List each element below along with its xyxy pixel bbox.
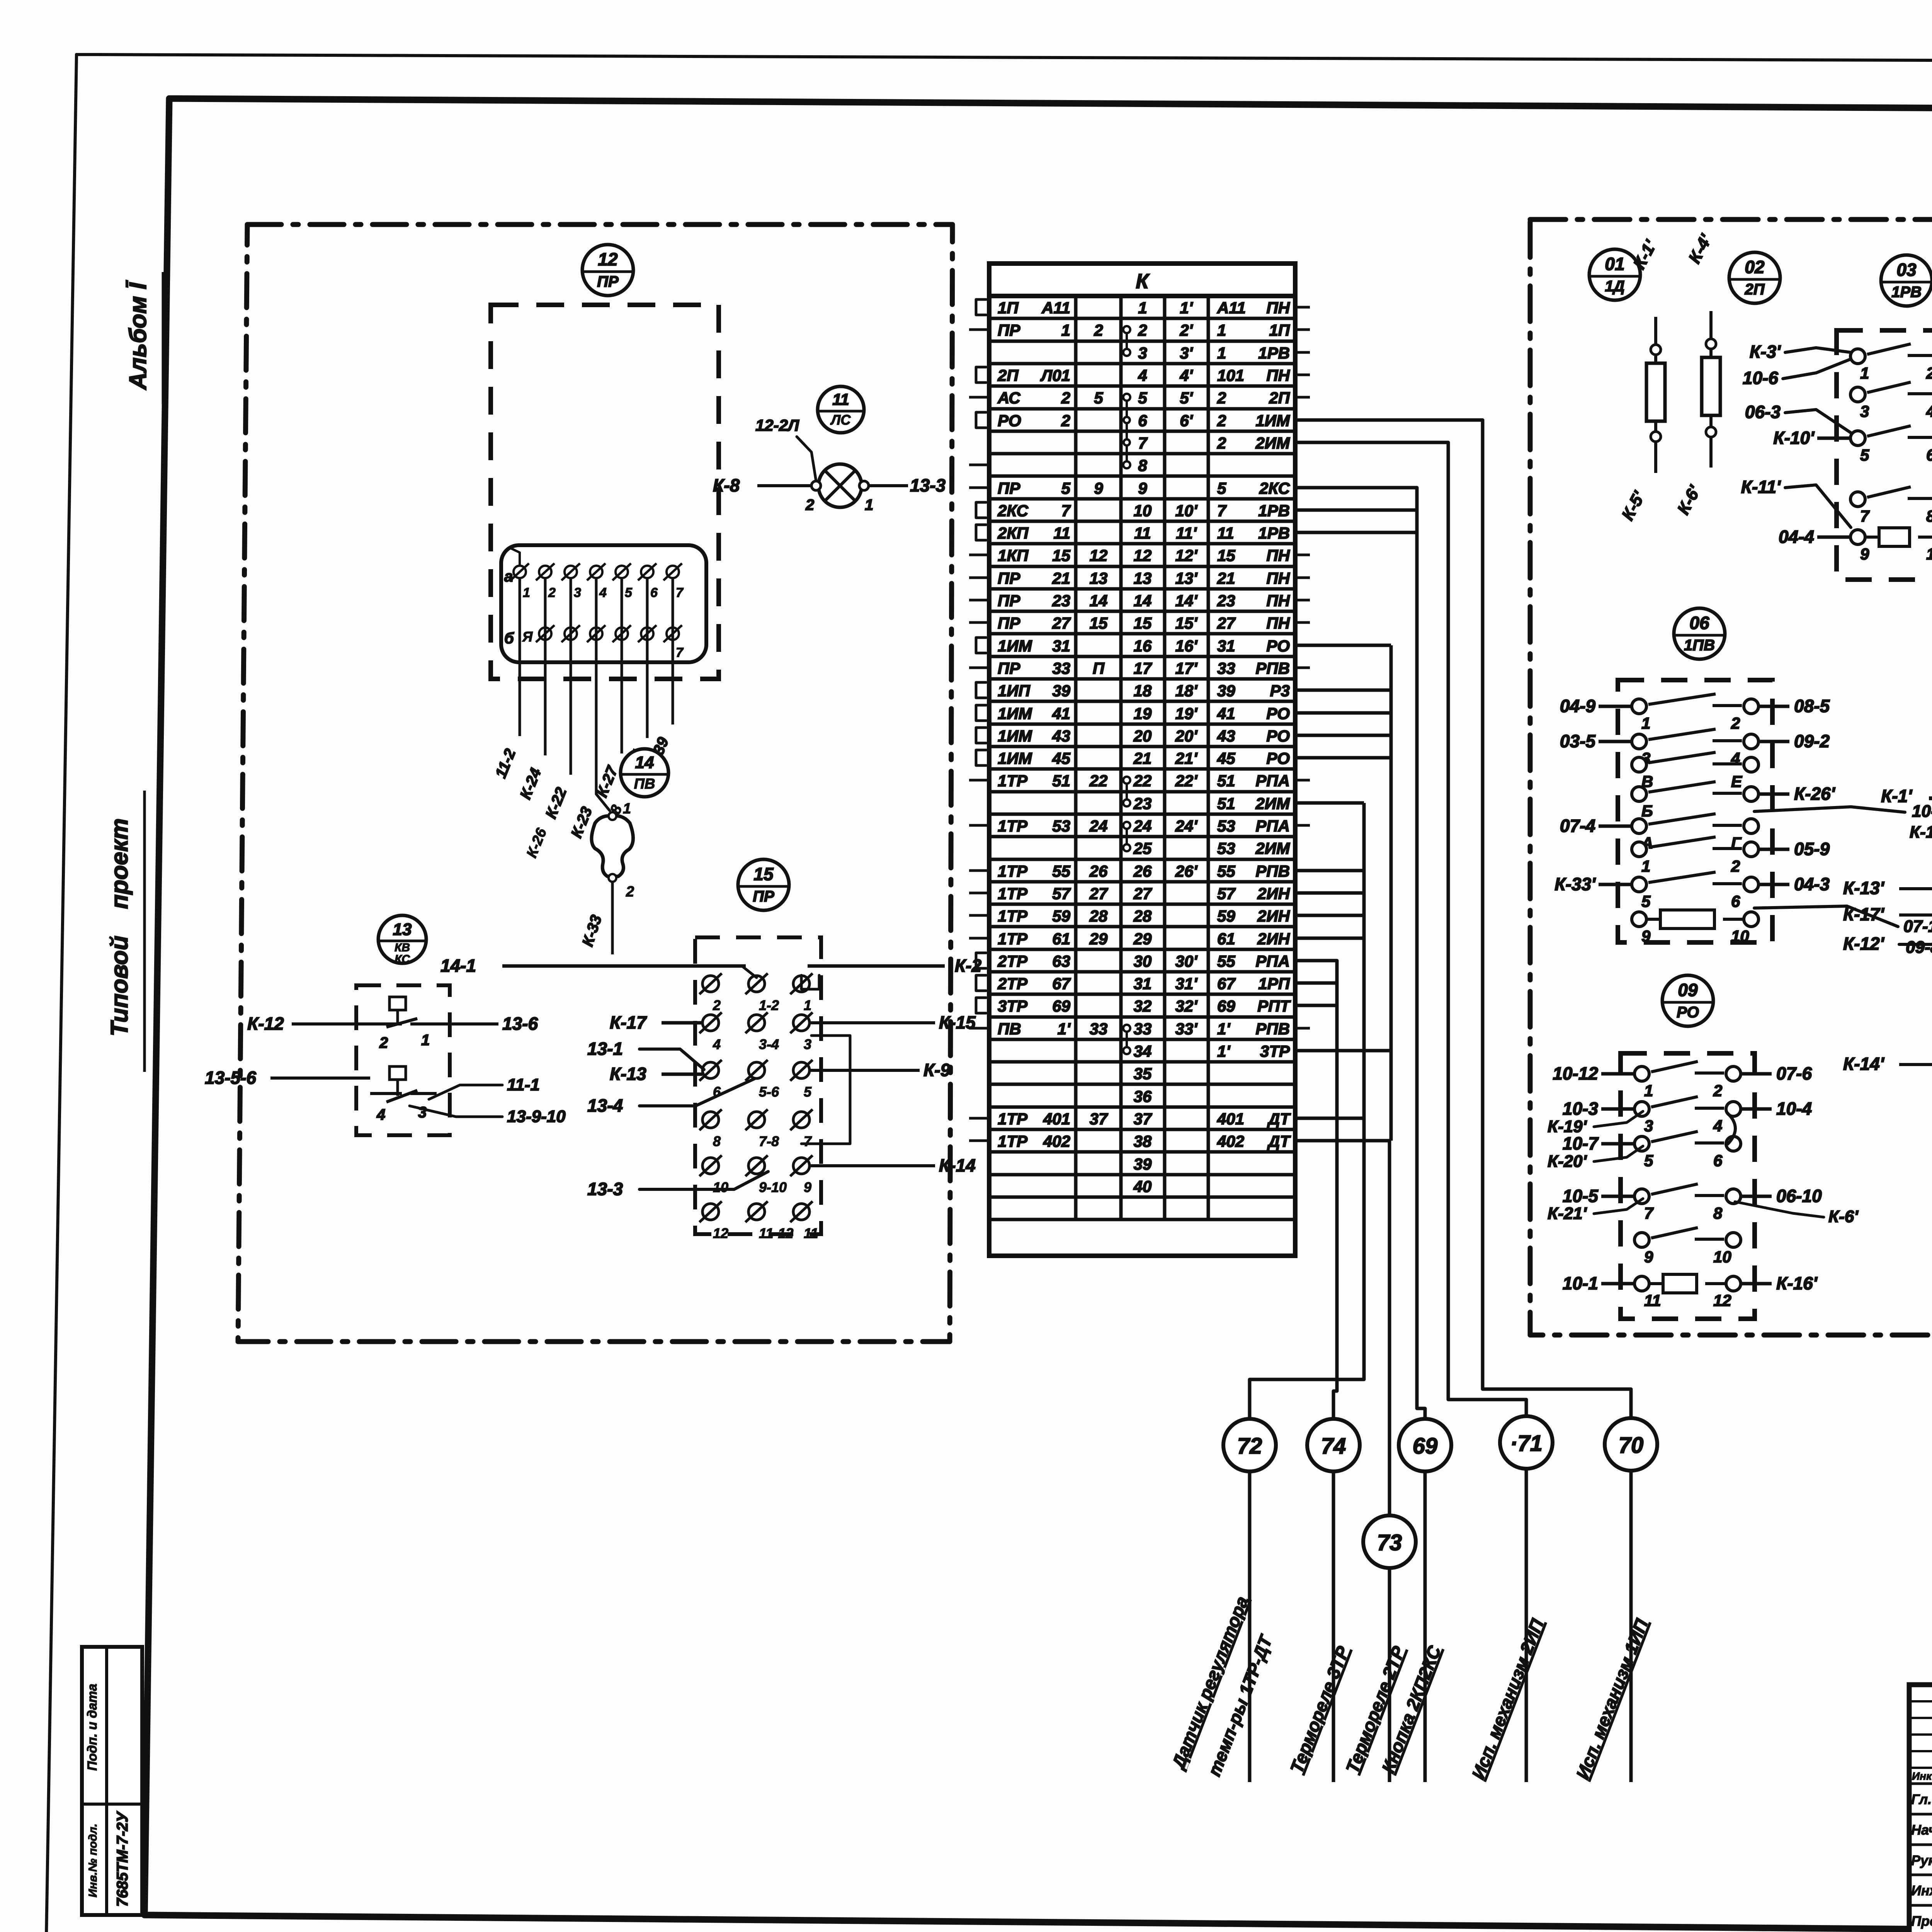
svg-text:2ИМ: 2ИМ — [1255, 839, 1290, 857]
svg-text:33': 33' — [1175, 1020, 1198, 1038]
svg-text:21': 21' — [1175, 749, 1198, 767]
svg-text:59: 59 — [1052, 907, 1070, 925]
svg-text:К-13': К-13' — [1843, 878, 1885, 898]
svg-text:39: 39 — [1052, 682, 1070, 700]
wire К-33 from 14/ПВ down — [611, 882, 614, 954]
svg-text:3-4: 3-4 — [759, 1036, 779, 1052]
svg-text:1: 1 — [523, 585, 530, 600]
svg-text:29: 29 — [1089, 930, 1108, 948]
svg-text:6: 6 — [1713, 1151, 1723, 1170]
svg-text:61: 61 — [1217, 930, 1235, 948]
svg-text:4: 4 — [1713, 1117, 1722, 1135]
svg-text:РПВ: РПВ — [1255, 1020, 1290, 1038]
svg-text:8: 8 — [713, 1133, 721, 1149]
svg-text:1П: 1П — [1269, 321, 1290, 339]
svg-text:10: 10 — [1731, 927, 1749, 945]
svg-text:1ТР: 1ТР — [998, 884, 1028, 903]
wire К-13 into 15/ПР — [662, 1073, 702, 1076]
jumper 1-2 blade — [742, 966, 757, 978]
svg-text:33: 33 — [1134, 1020, 1152, 1038]
svg-text:9: 9 — [1094, 479, 1103, 497]
svg-text:34: 34 — [1134, 1042, 1152, 1060]
component 15/ПР reference bubble — [738, 859, 789, 910]
svg-text:ПР: ПР — [597, 273, 619, 290]
svg-text:13': 13' — [1175, 569, 1198, 587]
svg-text:7685ТМ-7-2У: 7685ТМ-7-2У — [114, 1811, 131, 1906]
svg-text:Инк Лист: Инк Лист — [1912, 1770, 1932, 1782]
svg-text:1РВ: 1РВ — [1258, 502, 1290, 520]
pushbutton 13 dashed box — [356, 985, 450, 1135]
svg-text:ПР: ПР — [998, 592, 1020, 610]
svg-text:10-2: 10-2 — [1912, 802, 1932, 821]
svg-text:К-19': К-19' — [1548, 1117, 1587, 1136]
svg-text:09-2: 09-2 — [1794, 731, 1830, 751]
svg-text:38: 38 — [1134, 1132, 1152, 1150]
svg-text:04-4: 04-4 — [1779, 527, 1814, 547]
svg-text:10-4: 10-4 — [1776, 1099, 1812, 1119]
svg-text:К-21': К-21' — [1548, 1204, 1587, 1223]
svg-text:63: 63 — [1052, 952, 1070, 970]
wire К-14' aux4 — [1899, 1063, 1932, 1066]
fuse К-1/К-5 — [1654, 317, 1657, 473]
svg-text:К-6': К-6' — [1828, 1207, 1859, 1226]
svg-text:402: 402 — [1217, 1132, 1244, 1150]
svg-text:А11: А11 — [1041, 299, 1070, 317]
svg-text:70: 70 — [1619, 1433, 1644, 1458]
svg-text:31': 31' — [1175, 975, 1198, 993]
lamp 11/ЛС symbol — [818, 464, 862, 507]
svg-text:02: 02 — [1745, 257, 1765, 277]
svg-text:24': 24' — [1175, 817, 1198, 835]
bottom-left inventory stamp — [82, 1647, 142, 1915]
svg-text:12': 12' — [1175, 546, 1198, 565]
svg-text:51: 51 — [1217, 794, 1235, 813]
svg-text:РПТ: РПТ — [1257, 997, 1291, 1015]
svg-text:10-5: 10-5 — [1563, 1186, 1599, 1206]
svg-text:27: 27 — [1217, 614, 1236, 632]
svg-text:2ИМ: 2ИМ — [1255, 434, 1290, 452]
svg-text:14-1: 14-1 — [440, 956, 476, 976]
wire riser to circle 72 — [1250, 1118, 1364, 1429]
relay 03/1РВ contacts — [1850, 349, 1865, 364]
svg-text:ПН: ПН — [1266, 299, 1290, 317]
svg-text:10-6: 10-6 — [1743, 368, 1778, 388]
svg-text:3: 3 — [1860, 402, 1869, 420]
svg-text:2: 2 — [1061, 412, 1070, 430]
svg-text:Гл.инж.пр: Гл.инж.пр — [1911, 1791, 1932, 1807]
svg-text:07-10': 07-10' — [1903, 917, 1932, 936]
component 01/1Д reference bubble — [1589, 249, 1640, 300]
svg-text:41: 41 — [1217, 704, 1235, 723]
svg-text:К-8: К-8 — [713, 475, 740, 495]
svg-text:11: 11 — [804, 1225, 818, 1241]
svg-text:4': 4' — [1179, 366, 1193, 384]
svg-text:22: 22 — [1133, 772, 1152, 790]
svg-text:ПР: ПР — [753, 888, 774, 905]
svg-text:10: 10 — [1134, 502, 1152, 520]
svg-text:3ТР: 3ТР — [998, 997, 1028, 1015]
relay 09/РО contacts — [1634, 1066, 1649, 1081]
svg-text:28: 28 — [1133, 907, 1152, 925]
svg-text:14: 14 — [1090, 592, 1108, 610]
riser verticals — [1389, 645, 1393, 1141]
svg-text:РО: РО — [1266, 637, 1290, 655]
svg-text:67: 67 — [1217, 975, 1236, 993]
svg-text:4: 4 — [1926, 402, 1932, 420]
wire 13-9-10 — [410, 1106, 502, 1117]
svg-text:8: 8 — [1138, 456, 1147, 474]
svg-text:Инженер: Инженер — [1911, 1883, 1932, 1898]
pushbutton contact 2-1 — [370, 1022, 402, 1026]
svg-text:4: 4 — [713, 1036, 721, 1052]
svg-text:К-16': К-16' — [1776, 1273, 1818, 1293]
svg-text:01: 01 — [1605, 254, 1624, 274]
svg-text:К-17': К-17' — [1843, 904, 1885, 924]
svg-text:1: 1 — [421, 1032, 430, 1049]
svg-text:1КП: 1КП — [998, 546, 1029, 565]
relay 09/РО left wire labels — [1601, 1072, 1634, 1076]
svg-text:1-2: 1-2 — [759, 997, 779, 1013]
title block outline — [1909, 1685, 1932, 1932]
svg-text:55: 55 — [1217, 862, 1235, 880]
jumper wire 3-4 to 7-8 region — [801, 1036, 850, 1144]
svg-text:72: 72 — [1237, 1434, 1262, 1459]
svg-text:1РП: 1РП — [1258, 975, 1290, 993]
svg-text:05-9: 05-9 — [1794, 839, 1830, 859]
svg-text:1': 1' — [1058, 1020, 1071, 1038]
svg-text:К-14: К-14 — [939, 1155, 976, 1175]
svg-text:2ТР: 2ТР — [997, 975, 1028, 993]
svg-text:РПВ: РПВ — [1255, 659, 1290, 677]
svg-text:1ТР: 1ТР — [998, 862, 1028, 880]
svg-text:12: 12 — [1090, 546, 1108, 565]
svg-text:11: 11 — [1053, 524, 1070, 542]
svg-text:АС: АС — [997, 389, 1020, 407]
wire riser to circle 73 — [1295, 1141, 1389, 1515]
svg-text:ПН: ПН — [1266, 546, 1290, 565]
svg-text:23: 23 — [1133, 794, 1152, 813]
svg-text:1РВ: 1РВ — [1258, 344, 1290, 362]
component 03/1РВ reference bubble — [1881, 255, 1932, 306]
svg-text:06-10: 06-10 — [1776, 1186, 1822, 1206]
svg-text:1: 1 — [1860, 364, 1869, 382]
wire 14-1 into 15/ПР — [502, 964, 746, 968]
svg-text:РПА: РПА — [1255, 817, 1290, 835]
svg-text:7: 7 — [676, 645, 684, 660]
relay 06 extra right labels — [1754, 807, 1905, 812]
svg-text:1ТР: 1ТР — [998, 930, 1028, 948]
svg-text:13-5-6: 13-5-6 — [205, 1068, 256, 1088]
svg-text:12: 12 — [713, 1225, 728, 1241]
svg-text:2: 2 — [1094, 321, 1103, 339]
svg-text:13-3: 13-3 — [910, 475, 946, 495]
svg-text:20': 20' — [1175, 727, 1198, 745]
svg-text:10: 10 — [1926, 545, 1932, 563]
svg-text:37: 37 — [1090, 1110, 1108, 1128]
relay 09/РО right wire labels — [1741, 1072, 1772, 1076]
svg-text:14': 14' — [1175, 592, 1198, 610]
wire К-17' aux2 — [1899, 913, 1932, 917]
svg-text:7: 7 — [804, 1133, 812, 1149]
svg-text:РО: РО — [1677, 1004, 1699, 1021]
svg-text:402: 402 — [1043, 1132, 1070, 1150]
svg-text:61: 61 — [1052, 930, 1070, 948]
svg-text:25: 25 — [1133, 839, 1152, 857]
svg-text:2: 2 — [1731, 857, 1740, 875]
svg-text:К-10': К-10' — [1773, 428, 1815, 448]
svg-text:06: 06 — [1689, 613, 1709, 633]
wire from 4th terminal to pressure switch — [596, 794, 610, 811]
svg-text:10-3: 10-3 — [1563, 1099, 1598, 1119]
title block small top rows — [1909, 1700, 1932, 1702]
svg-text:Нач.сект: Нач.сект — [1911, 1822, 1932, 1838]
svg-text:43: 43 — [1217, 727, 1235, 745]
wire riser to circle 74 — [1295, 961, 1337, 1419]
svg-text:10-12: 10-12 — [1553, 1063, 1598, 1083]
svg-text:07-4: 07-4 — [1560, 816, 1595, 836]
left cabinet dashed boundary — [238, 224, 952, 1342]
svg-text:1: 1 — [1217, 321, 1226, 339]
svg-text:ПР: ПР — [998, 321, 1020, 339]
connector 15/ПР dashed box — [695, 937, 821, 1234]
svg-text:2П: 2П — [997, 366, 1019, 384]
svg-text:2П: 2П — [1744, 281, 1765, 298]
svg-text:1РВ: 1РВ — [1891, 284, 1922, 301]
svg-text:10: 10 — [1713, 1248, 1731, 1266]
svg-text:5: 5 — [1860, 446, 1869, 464]
leader 12-2Л — [797, 437, 816, 481]
svg-text:13-4: 13-4 — [587, 1095, 623, 1116]
svg-text:3: 3 — [418, 1104, 427, 1121]
svg-text:45: 45 — [1052, 749, 1070, 767]
wire К-12' to coil — [1899, 944, 1932, 951]
svg-text:К-26': К-26' — [1794, 784, 1836, 804]
svg-text:13-6: 13-6 — [502, 1014, 538, 1034]
table К grid — [989, 294, 1295, 298]
svg-text:15: 15 — [1217, 546, 1235, 565]
svg-text:К-13': К-13' — [1910, 823, 1932, 842]
svg-text:15: 15 — [753, 864, 774, 884]
svg-text:8: 8 — [1926, 507, 1932, 525]
svg-text:6: 6 — [1138, 412, 1147, 430]
svg-text:1ИМ: 1ИМ — [998, 637, 1032, 655]
svg-text:7: 7 — [1860, 507, 1870, 525]
svg-text:23: 23 — [1217, 592, 1235, 610]
svg-text:22': 22' — [1175, 772, 1198, 790]
svg-text:31: 31 — [1217, 637, 1235, 655]
svg-text:21: 21 — [1133, 749, 1152, 767]
svg-text:1Д: 1Д — [1605, 278, 1624, 295]
svg-text:2П: 2П — [1269, 389, 1290, 407]
terminal circle 70 — [1605, 1418, 1657, 1471]
svg-text:26: 26 — [1133, 862, 1152, 880]
svg-text:А11: А11 — [1217, 299, 1246, 317]
svg-text:2: 2 — [1138, 321, 1147, 339]
svg-text:69: 69 — [1217, 997, 1235, 1015]
component 02/2П reference bubble — [1729, 252, 1780, 303]
svg-text:101: 101 — [1217, 366, 1244, 384]
svg-text:17: 17 — [1134, 659, 1152, 677]
svg-text:ПН: ПН — [1266, 592, 1290, 610]
wire К-13' aux1 — [1899, 887, 1932, 890]
svg-text:1': 1' — [1217, 1020, 1231, 1038]
wire row7 to circle 71 — [1295, 442, 1526, 1416]
svg-text:39: 39 — [1134, 1155, 1152, 1173]
svg-text:03: 03 — [1896, 260, 1917, 280]
svg-text:21: 21 — [1217, 569, 1235, 587]
svg-text:74: 74 — [1321, 1434, 1346, 1459]
svg-text:7: 7 — [1138, 434, 1148, 452]
wire К-1' into Л1 — [1929, 796, 1932, 800]
svg-text:К-9: К-9 — [923, 1060, 951, 1080]
terminal circle 74 — [1307, 1419, 1360, 1471]
svg-text:13: 13 — [393, 920, 412, 939]
svg-text:23: 23 — [1052, 592, 1070, 610]
svg-text:13: 13 — [1134, 569, 1152, 587]
svg-text:К-13: К-13 — [610, 1064, 646, 1084]
component 14/ПВ reference bubble — [621, 749, 668, 797]
svg-text:40: 40 — [1133, 1177, 1152, 1196]
svg-text:Подп. и дата: Подп. и дата — [85, 1684, 100, 1770]
svg-text:2: 2 — [1217, 412, 1226, 430]
svg-text:·71: ·71 — [1510, 1431, 1543, 1456]
svg-text:6: 6 — [1926, 446, 1932, 464]
svg-text:К-14': К-14' — [1843, 1054, 1885, 1074]
relay 03/1РВ left wire labels — [1817, 437, 1850, 440]
svg-text:30: 30 — [1134, 952, 1152, 970]
wire row6 to circle 70 — [1295, 420, 1631, 1419]
wire 11-1 — [429, 1085, 502, 1099]
svg-text:2ИН: 2ИН — [1257, 930, 1291, 948]
svg-text:ПВ: ПВ — [998, 1020, 1021, 1038]
svg-text:К-11': К-11' — [1741, 477, 1781, 497]
svg-text:КВ: КВ — [395, 941, 410, 954]
terminal strip of 12/ПР — [501, 545, 706, 662]
svg-text:2: 2 — [1061, 389, 1070, 407]
svg-text:18': 18' — [1175, 682, 1198, 700]
svg-text:3: 3 — [804, 1036, 811, 1052]
wire lamp to 13-3 — [869, 484, 908, 487]
wire К-12 to 13 box — [292, 1022, 370, 1026]
svg-text:Типовой проект: Типовой проект — [106, 818, 133, 1036]
svg-text:24: 24 — [1133, 817, 1152, 835]
terminal circle 72 — [1223, 1419, 1276, 1471]
svg-text:43: 43 — [1052, 727, 1070, 745]
svg-text:2: 2 — [1217, 434, 1226, 452]
svg-text:9: 9 — [1644, 1248, 1653, 1266]
svg-text:73: 73 — [1377, 1530, 1402, 1555]
svg-text:3: 3 — [574, 585, 581, 600]
svg-text:28: 28 — [1089, 907, 1108, 925]
svg-text:ДТ: ДТ — [1267, 1110, 1291, 1128]
signature header row — [1909, 1782, 1932, 1785]
svg-text:5: 5 — [1644, 1151, 1653, 1170]
svg-text:ПР: ПР — [998, 569, 1020, 587]
svg-text:2КС: 2КС — [1259, 479, 1290, 497]
svg-text:б: б — [504, 630, 514, 647]
svg-text:57: 57 — [1217, 884, 1236, 903]
svg-text:Я: Я — [522, 629, 533, 645]
svg-text:5: 5 — [1217, 479, 1226, 497]
svg-text:13-1: 13-1 — [587, 1039, 623, 1059]
svg-text:11-1: 11-1 — [507, 1075, 540, 1094]
svg-text:15: 15 — [1090, 614, 1108, 632]
svg-text:Л01: Л01 — [1040, 366, 1070, 384]
svg-text:3': 3' — [1180, 344, 1193, 362]
svg-text:17': 17' — [1175, 659, 1198, 677]
svg-text:РПВ: РПВ — [1255, 862, 1290, 880]
svg-text:2: 2 — [1217, 389, 1226, 407]
svg-text:К-12: К-12 — [247, 1014, 284, 1034]
svg-text:2ИН: 2ИН — [1257, 907, 1291, 925]
svg-text:15: 15 — [1134, 614, 1152, 632]
svg-text:41: 41 — [1052, 704, 1070, 723]
svg-text:4: 4 — [376, 1106, 385, 1123]
svg-text:ПР: ПР — [998, 479, 1020, 497]
svg-text:6: 6 — [1731, 892, 1740, 910]
svg-text:69: 69 — [1052, 997, 1070, 1015]
svg-text:2: 2 — [1713, 1082, 1722, 1100]
svg-text:ПР: ПР — [998, 614, 1020, 632]
svg-text:РО: РО — [1266, 704, 1290, 723]
svg-text:5': 5' — [1180, 389, 1193, 407]
svg-text:1ИП: 1ИП — [998, 682, 1031, 700]
svg-text:1ТР: 1ТР — [998, 817, 1028, 835]
relay 03 extra labels — [1785, 348, 1851, 352]
svg-text:1': 1' — [1180, 299, 1193, 317]
svg-text:08-5: 08-5 — [1794, 696, 1830, 716]
svg-text:12: 12 — [1713, 1291, 1731, 1310]
table К jumper links in column 3 — [1126, 330, 1128, 352]
svg-text:2: 2 — [805, 497, 814, 514]
svg-text:РО: РО — [1266, 727, 1290, 745]
svg-text:55: 55 — [1217, 952, 1235, 970]
svg-text:3: 3 — [1644, 1117, 1653, 1135]
svg-text:33: 33 — [1052, 659, 1070, 677]
terminal circle 73 — [1363, 1515, 1416, 1568]
svg-text:45: 45 — [1217, 749, 1235, 767]
svg-text:7: 7 — [1217, 502, 1227, 520]
svg-text:37: 37 — [1134, 1110, 1152, 1128]
relay 03/1РВ dashed box — [1837, 330, 1932, 580]
relay 09 extra right label К-6' — [1735, 1202, 1824, 1217]
svg-text:12: 12 — [1134, 546, 1152, 565]
svg-text:35: 35 — [1134, 1065, 1152, 1083]
svg-text:7: 7 — [1644, 1204, 1654, 1222]
svg-text:10': 10' — [1175, 502, 1198, 520]
wire from terminal 1 hook — [510, 548, 520, 566]
svg-text:Инв.№ подл.: Инв.№ подл. — [87, 1823, 99, 1897]
svg-text:19': 19' — [1175, 704, 1198, 723]
svg-text:13-3: 13-3 — [587, 1179, 623, 1199]
svg-text:57: 57 — [1052, 884, 1071, 903]
svg-text:53: 53 — [1052, 817, 1070, 835]
svg-text:401: 401 — [1043, 1110, 1070, 1128]
pressure switch 14/ПВ body — [592, 816, 633, 876]
svg-text:53: 53 — [1217, 839, 1235, 857]
svg-text:1ТР: 1ТР — [998, 1132, 1028, 1150]
svg-text:5: 5 — [804, 1084, 812, 1100]
wire row9 to circle 69 — [1295, 488, 1425, 1421]
svg-text:04-9: 04-9 — [1560, 696, 1595, 716]
svg-text:ПВ: ПВ — [634, 776, 655, 792]
svg-text:К-3': К-3' — [1750, 342, 1781, 362]
svg-text:1: 1 — [1641, 714, 1650, 732]
svg-text:ДТ: ДТ — [1267, 1132, 1291, 1150]
relay 06/1ПВ left wire labels — [1599, 705, 1631, 708]
svg-text:10-7: 10-7 — [1563, 1133, 1599, 1153]
svg-text:5: 5 — [625, 585, 633, 600]
